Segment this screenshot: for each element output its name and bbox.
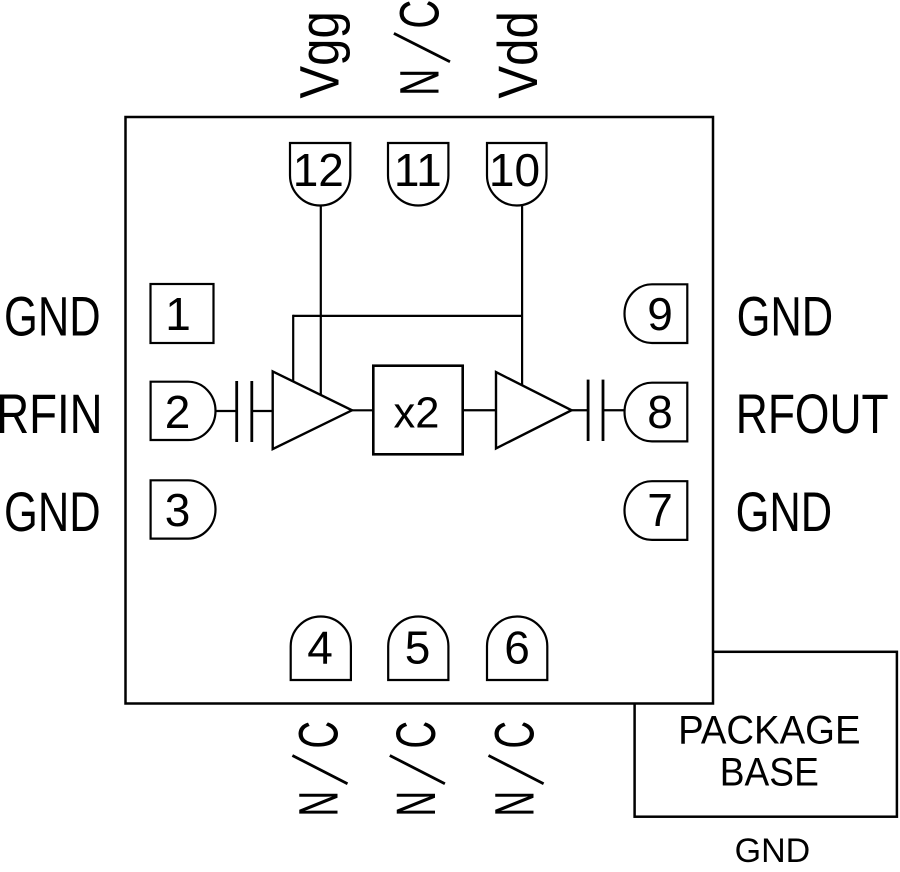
wire pin10 to amp A2 (521, 206, 523, 386)
capacitor C1 plate A (235, 381, 238, 442)
package base box (635, 652, 897, 817)
svg-text:N: N (385, 791, 447, 817)
svg-text:Vgg: Vgg (290, 11, 351, 98)
wire Vdd bias horizontal (293, 315, 522, 317)
wire C2 to pin 8 (603, 409, 625, 411)
frequency doubler X2 box (373, 366, 462, 455)
svg-text:10: 10 (489, 144, 540, 196)
pin 10 (487, 143, 547, 205)
capacitor C1 plate B (250, 381, 253, 442)
wire pin12 to amp A1 (320, 206, 322, 396)
pin 4 (291, 617, 351, 680)
pin 3 (151, 480, 216, 538)
svg-text:7: 7 (647, 484, 673, 536)
svg-text:GND: GND (4, 481, 101, 543)
svg-text:12: 12 (293, 144, 344, 196)
svg-text:8: 8 (647, 386, 673, 438)
label N/C pin11 slash (394, 33, 450, 61)
pin 11 (388, 143, 448, 205)
svg-text:1: 1 (165, 288, 191, 340)
op-amp A1 (273, 371, 352, 449)
svg-text:BASE: BASE (720, 751, 819, 795)
svg-text:3: 3 (165, 484, 191, 536)
svg-text:C: C (389, 0, 451, 29)
svg-text:N: N (287, 791, 349, 817)
svg-text:x2: x2 (394, 390, 440, 438)
pin 8 (625, 383, 688, 442)
label N/C pin6 slash (489, 756, 544, 784)
svg-text:6: 6 (504, 622, 530, 674)
capacitor C2 plate A (587, 380, 590, 441)
label N/C pin4 slash (292, 756, 347, 784)
pin 5 (388, 617, 448, 680)
pin 2 (151, 382, 216, 440)
svg-text:2: 2 (165, 386, 191, 438)
capacitor C2 plate B (602, 380, 605, 441)
pin 9 (625, 284, 688, 343)
svg-text:GND: GND (736, 481, 833, 543)
svg-text:4: 4 (307, 622, 333, 674)
svg-text:GND: GND (737, 285, 834, 347)
pin 6 (487, 617, 547, 681)
pin 12 (290, 143, 350, 205)
svg-text:5: 5 (405, 622, 431, 674)
svg-text:C: C (289, 721, 351, 749)
svg-text:RFOUT: RFOUT (736, 383, 889, 445)
wire pin2 to capacitor C1 (215, 410, 238, 412)
svg-text:C: C (485, 721, 547, 749)
svg-text:Vdd: Vdd (488, 11, 549, 98)
svg-text:N: N (483, 791, 545, 817)
op-amp A2 (496, 372, 572, 448)
wire A1 to x2 block (352, 409, 373, 411)
wire A2 to capacitor C2 (572, 409, 589, 411)
svg-text:GND: GND (4, 285, 101, 347)
svg-text:GND: GND (735, 832, 811, 870)
svg-text:PACKAGE: PACKAGE (678, 709, 860, 753)
svg-text:N: N (389, 69, 451, 96)
pin 1 (151, 284, 214, 343)
svg-text:RFIN: RFIN (0, 383, 103, 445)
svg-text:11: 11 (394, 144, 442, 196)
package outline (126, 117, 714, 704)
wire x2 block to amp A2 (463, 409, 496, 411)
svg-text:9: 9 (647, 288, 673, 340)
pin 7 (625, 481, 688, 540)
wire Vdd bias drop to amp A1 (292, 315, 294, 384)
label N/C pin5 slash (390, 756, 445, 784)
wire C1 to amp A1 (252, 410, 273, 412)
svg-text:C: C (386, 721, 448, 749)
